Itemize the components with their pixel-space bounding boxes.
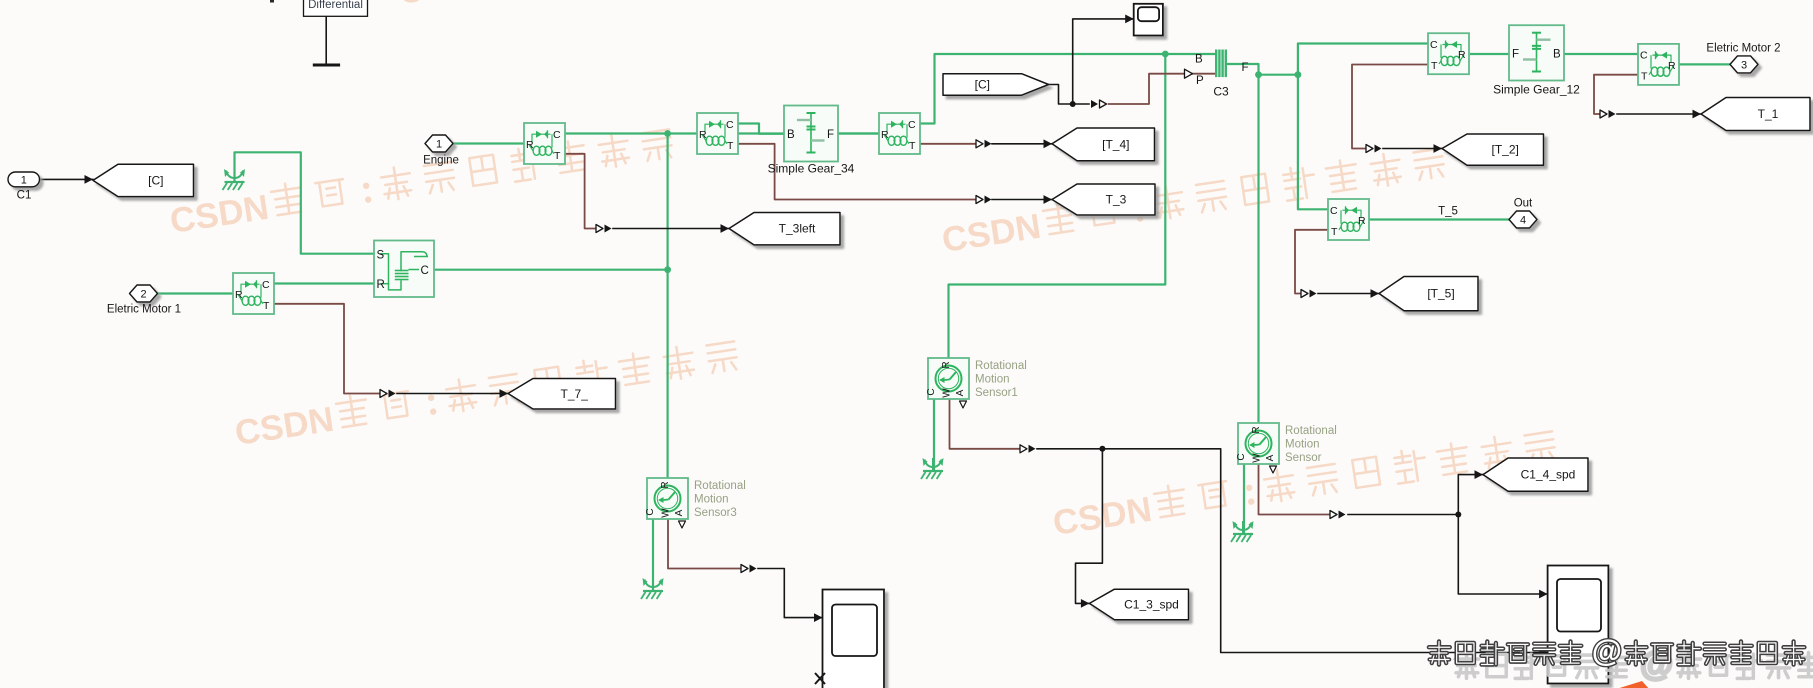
wire clutch F right <box>1228 64 1298 75</box>
wire S4 C to planetary R <box>274 282 374 284</box>
signal wire RMS3 to scope2 <box>758 569 823 623</box>
goto tag T_7_ <box>508 379 616 410</box>
wire junction down to RMS2 R <box>1257 75 1259 423</box>
torque sensor S4 motor1 <box>233 273 274 314</box>
terminator under Differential <box>313 16 340 65</box>
ps-simulink converter T_4 <box>976 140 992 148</box>
torque sensor S5 mirrored <box>1428 33 1469 74</box>
connection port 4 Out <box>1509 211 1537 228</box>
junction dot trunk top <box>664 130 671 137</box>
signal wire RMS2 to junction and C1_4_spd <box>1348 470 1483 514</box>
ps wire S6 T to converter <box>1594 75 1638 114</box>
signal wire junction to C1_3_spd <box>1076 449 1103 608</box>
label Eletric Motor 2 <box>1706 43 1780 55</box>
ps-simulink converter T_3 <box>976 196 992 204</box>
rotational reference ground G2 <box>921 458 944 479</box>
scope block top <box>1134 4 1163 36</box>
wire motor1 port to S4 R <box>158 292 233 294</box>
ps-simulink converter RMS3 <box>741 565 757 573</box>
rotational motion sensor RMS1 <box>926 358 1027 408</box>
goto tag C <box>93 164 194 196</box>
ps wire RMS2 W to converter <box>1259 464 1331 515</box>
wire planetary C to trunk <box>434 269 668 271</box>
wire S6 R to motor2 port <box>1679 63 1730 65</box>
junction dot RMS2 out <box>1455 512 1461 518</box>
wire S3 C up to clutch B <box>920 54 1216 124</box>
rotational reference ground G4 <box>641 578 664 599</box>
goto tag C1_3_spd <box>1089 589 1188 620</box>
svg-text:@: @ <box>1592 633 1622 668</box>
signal wire junction down to scope3 <box>1458 515 1547 599</box>
wire vertical trunk to sensor3 <box>666 134 668 479</box>
signal wire C1 to goto C <box>40 175 94 184</box>
planetary gear block <box>374 241 434 298</box>
label T_5 wire name <box>1438 206 1458 218</box>
wire gear34 F to S3 R <box>838 132 879 134</box>
signal wire to goto T_1 <box>1617 110 1701 119</box>
goto tag T_2 <box>1442 134 1544 165</box>
signal wire RMS1 to scope2 chain <box>1037 449 1548 657</box>
simulink-ps converter clutch <box>1091 100 1107 108</box>
goto tag T_1 <box>1701 98 1810 131</box>
goto tag C1_4_spd <box>1483 458 1588 491</box>
from tag C source <box>943 74 1049 96</box>
connection port 1 Engine <box>423 135 459 167</box>
ps-simulink converter T_3left <box>596 225 612 233</box>
rotational motion sensor RMS3 <box>645 478 746 528</box>
junction dot RMS1 out <box>1099 446 1105 452</box>
gear block Simple Gear_34 <box>768 106 855 176</box>
ps wire RMS3 W to converter <box>668 519 741 569</box>
ps-simulink converter C1_4 <box>1330 511 1346 519</box>
wire RMS3 C to ground <box>652 519 654 589</box>
torque sensor S3 <box>879 113 920 154</box>
signal wire from goto C to converter <box>1048 85 1089 105</box>
rotational motion sensor RMS2 <box>1236 423 1337 473</box>
junction dot clutch F 1 <box>1255 71 1262 78</box>
ps wire converter to clutch P <box>1109 74 1217 104</box>
rotational reference ground G1 <box>223 169 246 190</box>
wire ground loop to planetary S <box>235 152 375 253</box>
signal wire to goto T_2 <box>1383 144 1442 153</box>
clutch C3 <box>1185 50 1249 99</box>
ps wire S1 T to converter <box>564 154 596 229</box>
torque sensor S1 engine <box>524 123 565 164</box>
wire junction up to mirrored sensor C <box>1298 44 1428 75</box>
ps-simulink converter T_1 <box>1600 110 1616 118</box>
ps wire S4 T to converter <box>274 304 380 394</box>
wire S5 R to gear12 F <box>1471 53 1509 55</box>
junction dot clutch F 2 <box>1295 71 1302 78</box>
wire sensor C row to gear chain <box>564 132 879 134</box>
ps-simulink converter T_5b <box>1301 290 1317 298</box>
wire RMS1 C to ground <box>933 399 935 469</box>
torque sensor S2 <box>697 113 738 154</box>
wire S7 R to out port <box>1369 218 1509 220</box>
torque sensor S7 mirrored <box>1328 199 1369 240</box>
ps-simulink converter RMS1 <box>1020 445 1036 453</box>
signal wire to goto T_3left <box>613 224 729 233</box>
unconnected input marker scope2 <box>815 673 825 684</box>
signal wire to goto T_7_ <box>397 389 508 398</box>
wire gear12 B to S6 C <box>1565 53 1638 55</box>
junction dot clutch B <box>1162 51 1169 58</box>
clipped block fragment top-left <box>270 0 274 3</box>
label Out <box>1514 198 1533 210</box>
ps wire S2 T to converter <box>738 144 976 200</box>
signal wire to goto T_3 <box>992 195 1052 204</box>
signal wire to goto T_5b <box>1318 289 1379 298</box>
wire RMS2 C to ground <box>1243 464 1245 532</box>
ps wire S3 T to converter <box>920 143 976 145</box>
connection port 3 Eletric Motor 2 <box>1730 56 1758 73</box>
scope block bottom right <box>1548 566 1609 684</box>
ps wire S5 T to converter <box>1352 65 1428 149</box>
goto tag T_3left <box>729 213 840 245</box>
connection port 2 Eletric Motor 1 <box>107 285 181 316</box>
goto tag T_3 <box>1052 184 1155 215</box>
scope block bottom left <box>823 590 885 688</box>
junction dot trunk planetary <box>664 266 671 273</box>
ps wire RMS1 W to converter <box>950 399 1021 449</box>
goto tag T_5 <box>1379 277 1478 311</box>
wire engine port to sensor R <box>453 142 524 144</box>
wire junction down to T5 sensor C <box>1298 75 1328 210</box>
ps wire S7 T to converter <box>1295 230 1328 294</box>
rotational reference ground G3 <box>1231 521 1254 542</box>
signal wire junction up to scope1 <box>1073 15 1134 105</box>
input port 1 C1 <box>8 172 40 202</box>
signal wire to goto T_4 <box>992 139 1052 148</box>
subsystem Differential (clipped) <box>304 0 368 16</box>
goto tag T_4 <box>1052 128 1155 161</box>
torque sensor S6 mirrored <box>1638 44 1679 85</box>
juejin logo <box>1608 678 1653 688</box>
gear block Simple Gear_12 <box>1493 25 1580 96</box>
ps-simulink converter T_2 <box>1366 145 1382 153</box>
wire trunk B down-left to RMS1 R <box>949 54 1166 358</box>
wire S2 C to gear34 B <box>738 124 784 134</box>
junction dot scope black 1 <box>1070 101 1076 107</box>
ps-simulink converter T_7_ <box>380 390 396 398</box>
